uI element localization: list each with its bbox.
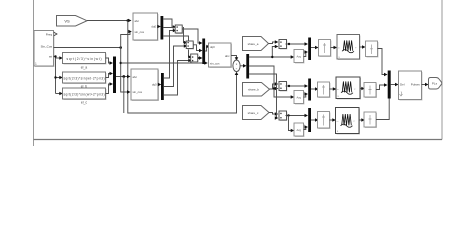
wire sin_cos to dq0_to_abc — [121, 61, 208, 65]
wire sin_cos down to abc_to_dq0 bottom — [121, 48, 131, 94]
sum block A — [175, 25, 183, 34]
wire mux R3 to minmax3 — [311, 118, 319, 122]
wire sum2 to mux R2 — [286, 84, 309, 88]
Fcn block el_a — [63, 53, 107, 70]
wire mux R1 to minmax1 — [311, 46, 319, 50]
canvas left border — [33, 0, 35, 146]
svg-text:el_c: el_c — [81, 101, 88, 105]
demux D2 — [161, 73, 164, 100]
wire dq0_to_abc to product — [231, 56, 238, 61]
svg-text:sqrt(2/3)*sin(wt+2*pi/3): sqrt(2/3)*sin(wt+2*pi/3) — [64, 92, 105, 96]
wire mux R2 to minmax2 — [311, 87, 319, 91]
block minmax3 — [318, 112, 331, 130]
mux R1 — [308, 38, 311, 61]
wire Del block to PLs tag — [422, 83, 429, 87]
block PWM1 — [337, 35, 361, 61]
svg-text:sqrt(2/3)*sin(wt): sqrt(2/3)*sin(wt) — [67, 57, 102, 61]
wire VS drop to bottom feedback — [128, 21, 239, 114]
wire Avg3 to mux R3 — [304, 125, 309, 129]
wire delay2 to final mux — [376, 83, 388, 89]
wire sum B to mux4 — [193, 45, 202, 53]
svg-text:abc: abc — [135, 19, 140, 23]
wire PWM2 to delay2 — [360, 87, 365, 91]
block delay3 — [364, 112, 377, 128]
svg-text:Sin_Cos: Sin_Cos — [41, 44, 53, 48]
product block (ellipse) — [233, 60, 241, 72]
wire minmax1 to PWM1 — [331, 46, 338, 50]
wire share_c to sum3 — [269, 112, 278, 116]
goto tag VS — [57, 16, 88, 27]
wire PWM1 to delay1 — [360, 45, 366, 49]
wire Avg1 to mux R1 — [304, 50, 309, 56]
node wt junction 1 — [54, 55, 56, 57]
svg-text:m: m — [338, 48, 340, 50]
wire sin_cos up to abc_to_dq0 top — [121, 30, 132, 48]
block minmax2 — [318, 82, 331, 98]
wire demux3 out2 to sum2 and Avg2 — [249, 66, 294, 99]
wire el_a to mux — [106, 58, 114, 65]
wire dq0 lower to demux2 — [158, 83, 162, 87]
svg-text:dq0: dq0 — [210, 45, 215, 49]
block dq0_to_abc — [209, 43, 233, 68]
subsystem PLL (Freq / Sin_Cos / wt) — [34, 31, 55, 68]
svg-text:abc: abc — [133, 75, 138, 79]
wire el mux out to abc_to_dq0 bottom abc — [116, 75, 131, 79]
svg-text:Pulses: Pulses — [411, 82, 421, 86]
wire demux3 out3 to sum3 — [249, 74, 278, 120]
wire el out branch down — [123, 77, 125, 114]
wire PWM3 to delay3 — [359, 118, 365, 122]
svg-text:el_a: el_a — [81, 65, 88, 69]
svg-text:PLs: PLs — [432, 82, 438, 86]
node el out junction — [122, 75, 125, 78]
svg-text:Avg: Avg — [296, 96, 301, 100]
block Avg1 — [294, 50, 305, 64]
svg-text:sin_cos: sin_cos — [210, 62, 220, 66]
block delay1 — [366, 41, 379, 58]
wire delay3 to final mux — [376, 98, 389, 120]
svg-text:VS: VS — [64, 18, 70, 23]
wire share_b to sum2 — [270, 82, 279, 89]
node wt junction 2 — [54, 76, 56, 78]
block Del / Pulses — [399, 71, 423, 101]
svg-text:share_c: share_c — [248, 111, 259, 115]
node sin_cos branch to dq0_to_abc — [120, 62, 122, 64]
wire share_a to sum1 — [269, 40, 279, 44]
wire demux2 out2 riser to sum B — [164, 44, 188, 86]
wire sum1 to mux R1 — [286, 42, 309, 46]
wire el_c to mux — [106, 82, 114, 93]
wire sum3 branch to Avg3 — [289, 116, 295, 133]
svg-text:1: 1 — [35, 62, 37, 66]
sum block C — [191, 54, 199, 63]
wire minmax3 to PWM3 — [330, 118, 336, 122]
sum block S2 — [279, 82, 287, 92]
wire demux1 out1 to sum A — [163, 19, 176, 29]
wire VS to abc_to_dq0 abc input — [87, 19, 132, 23]
goto tag share_a — [243, 37, 269, 51]
mux el_abc — [113, 57, 116, 94]
svg-text:Avg: Avg — [296, 55, 301, 59]
svg-text:m: m — [337, 121, 339, 123]
Fcn block el_c — [63, 88, 107, 105]
sum block S1 — [279, 40, 287, 50]
canvas right border — [441, 0, 443, 140]
svg-text:sin_cos: sin_cos — [135, 30, 145, 34]
wire mux4 to dq0_to_abc — [205, 45, 210, 51]
Fcn block el_b — [63, 72, 107, 89]
wire delay1 to final mux — [378, 49, 388, 77]
svg-text:sqrt(2/3)*sin(wt-2*pi/3): sqrt(2/3)*sin(wt-2*pi/3) — [64, 76, 105, 80]
wire demux2 out1 riser to sum A — [164, 29, 177, 78]
goto tag share_c — [243, 106, 270, 120]
demux D3 — [246, 54, 249, 79]
wire demux2 out3 riser to sum C — [164, 59, 192, 95]
svg-text:dq0: dq0 — [151, 25, 156, 29]
wire sum A to mux4 — [182, 29, 202, 45]
node sin_cos junction — [119, 46, 122, 49]
block PWM3 — [336, 108, 361, 135]
mux R3 — [308, 108, 311, 132]
wire final mux to Del block — [391, 83, 399, 87]
svg-text:sin_cos: sin_cos — [133, 90, 143, 94]
wire demux1 out3 to sum C — [163, 36, 192, 59]
mux R2 — [308, 79, 311, 101]
block Avg3 — [294, 123, 305, 137]
block minmax1 — [319, 40, 332, 58]
wire sum3 to mux R3 — [286, 114, 309, 118]
node VS branch junction — [127, 19, 130, 22]
wire dq0 upper to demux1 — [157, 25, 161, 29]
svg-text:Del: Del — [400, 82, 405, 86]
wire demux1 out2 to sum B — [163, 28, 187, 45]
canvas bottom border — [34, 139, 443, 141]
svg-text:share_b: share_b — [248, 88, 259, 92]
mux M4 — [202, 39, 205, 65]
wire sum C to mux4 — [198, 56, 203, 60]
svg-text:share_a: share_a — [248, 42, 259, 46]
wire wt to Fcn blocks — [54, 56, 63, 95]
goto tag PLs — [429, 78, 442, 90]
svg-text:m: m — [337, 89, 339, 91]
svg-text:Avg: Avg — [296, 128, 301, 132]
sum block B — [186, 41, 194, 50]
wire el_b to mux — [106, 72, 114, 78]
final mux M5 — [388, 71, 391, 99]
wire Sin_Cos line — [54, 47, 122, 49]
svg-text:Freq: Freq — [46, 32, 53, 36]
demux D1 — [161, 16, 164, 40]
wire demux3 out1 to Avg1 and sum1 — [249, 45, 294, 59]
block Avg2 — [294, 91, 305, 105]
goto tag share_b — [243, 83, 270, 97]
svg-text:abc: abc — [225, 54, 230, 58]
block PWM2 — [336, 77, 361, 100]
block abc_to_dq0 upper — [133, 13, 159, 41]
wire minmax2 to PWM2 — [330, 87, 337, 91]
block delay2 — [364, 83, 377, 99]
block abc_to_dq0 lower — [131, 69, 159, 101]
sum block S3 — [279, 111, 287, 121]
wire Avg2 to mux R2 — [304, 92, 309, 97]
wire product to demux3 — [240, 64, 246, 68]
pin Freq unconnected stub — [54, 32, 57, 36]
svg-text:dq0: dq0 — [152, 83, 157, 87]
svg-text:wt: wt — [49, 55, 52, 59]
